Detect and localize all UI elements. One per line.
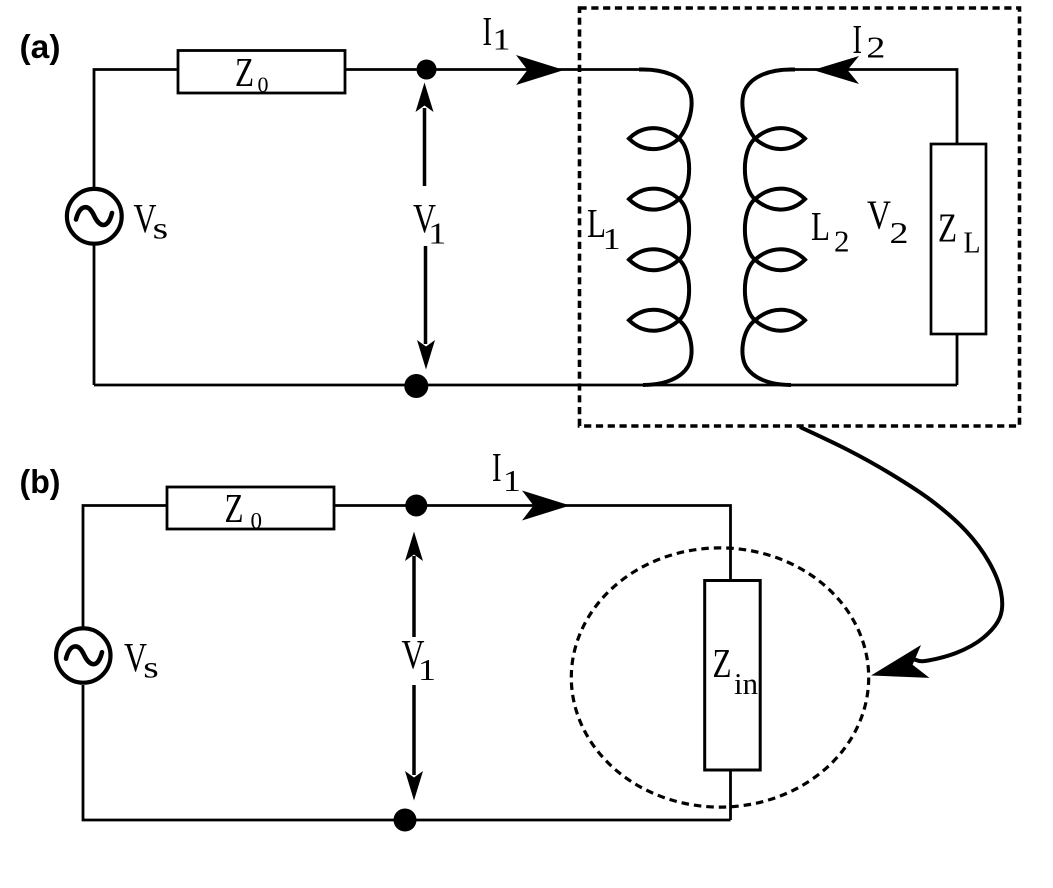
node junction dot bottom (circuit b) [394, 809, 417, 832]
source Vs (circuit b) [56, 628, 110, 682]
voltage arrow V1 lower segment (circuit b) [412, 685, 416, 775]
node junction dot bottom (circuit a) [404, 374, 428, 398]
wire top-left of circuit a [94, 70, 178, 190]
impedance Z0 (circuit a) [178, 51, 345, 94]
svg-text:1: 1 [503, 463, 521, 498]
wire left vertical lower and bottom (circuit b) [83, 685, 731, 820]
wire from transformer to ZL top (circuit a) [780, 70, 957, 145]
svg-text:Z: Z [938, 205, 957, 251]
dashed transformer boundary box [580, 8, 1020, 426]
dashed highlight ellipse around Zin [571, 548, 868, 807]
node junction dot top (circuit a) [417, 60, 437, 80]
wire left vertical lower (circuit a) [93, 246, 96, 386]
wire top-left of circuit b [83, 506, 167, 629]
svg-text:1: 1 [428, 216, 446, 251]
svg-text:1: 1 [603, 221, 621, 256]
svg-text:2: 2 [890, 215, 909, 250]
current arrow I2 [813, 56, 859, 84]
node junction dot top (circuit b) [405, 495, 427, 517]
svg-text:I: I [492, 444, 502, 490]
svg-text:(b): (b) [20, 463, 61, 500]
svg-text:1: 1 [418, 652, 436, 687]
svg-text:in: in [734, 666, 758, 701]
svg-text:V: V [867, 192, 891, 238]
wire ZL bottom (circuit a) [956, 334, 959, 385]
svg-text:L: L [811, 203, 830, 249]
svg-text:s: s [153, 211, 169, 246]
sine symbol inside source Vs (circuit b) [66, 646, 102, 664]
svg-text:Z: Z [225, 485, 244, 531]
voltage arrow V1 lower segment (circuit a) [424, 246, 428, 344]
svg-text:Z: Z [235, 49, 254, 95]
inductor L2 [742, 70, 805, 386]
svg-text:2: 2 [834, 224, 850, 259]
inductor L1 [629, 70, 692, 386]
svg-text:2: 2 [866, 30, 885, 65]
svg-text:L: L [964, 225, 981, 260]
source Vs (circuit a) [67, 189, 122, 244]
load impedance ZL [931, 144, 986, 334]
input impedance Zin [705, 581, 761, 771]
wire from Z0 to Zin (circuit b) [334, 506, 731, 581]
svg-text:s: s [143, 649, 159, 684]
svg-text:(a): (a) [20, 28, 61, 65]
impedance Z0 (circuit b) [167, 487, 334, 529]
voltage arrow V1 upper segment (circuit b) [412, 556, 416, 637]
current arrow I1 (circuit b) [522, 491, 570, 521]
sine symbol inside source Vs (circuit a) [76, 207, 112, 225]
wire bottom (circuit a) [94, 384, 957, 387]
wire Zin bottom (circuit b) [729, 770, 732, 820]
svg-text:I: I [483, 8, 493, 54]
wire from Z0 to node and into transformer (circuit a) [345, 68, 646, 71]
leader curve from transformer box to Zin ellipse [800, 427, 1002, 661]
svg-text:1: 1 [493, 22, 511, 57]
voltage arrow V1 upper segment (circuit a) [423, 108, 427, 186]
svg-text:Z: Z [713, 640, 732, 686]
leader arrowhead [871, 645, 930, 678]
current arrow I1 (circuit a) [516, 55, 564, 85]
svg-text:I: I [853, 16, 863, 62]
